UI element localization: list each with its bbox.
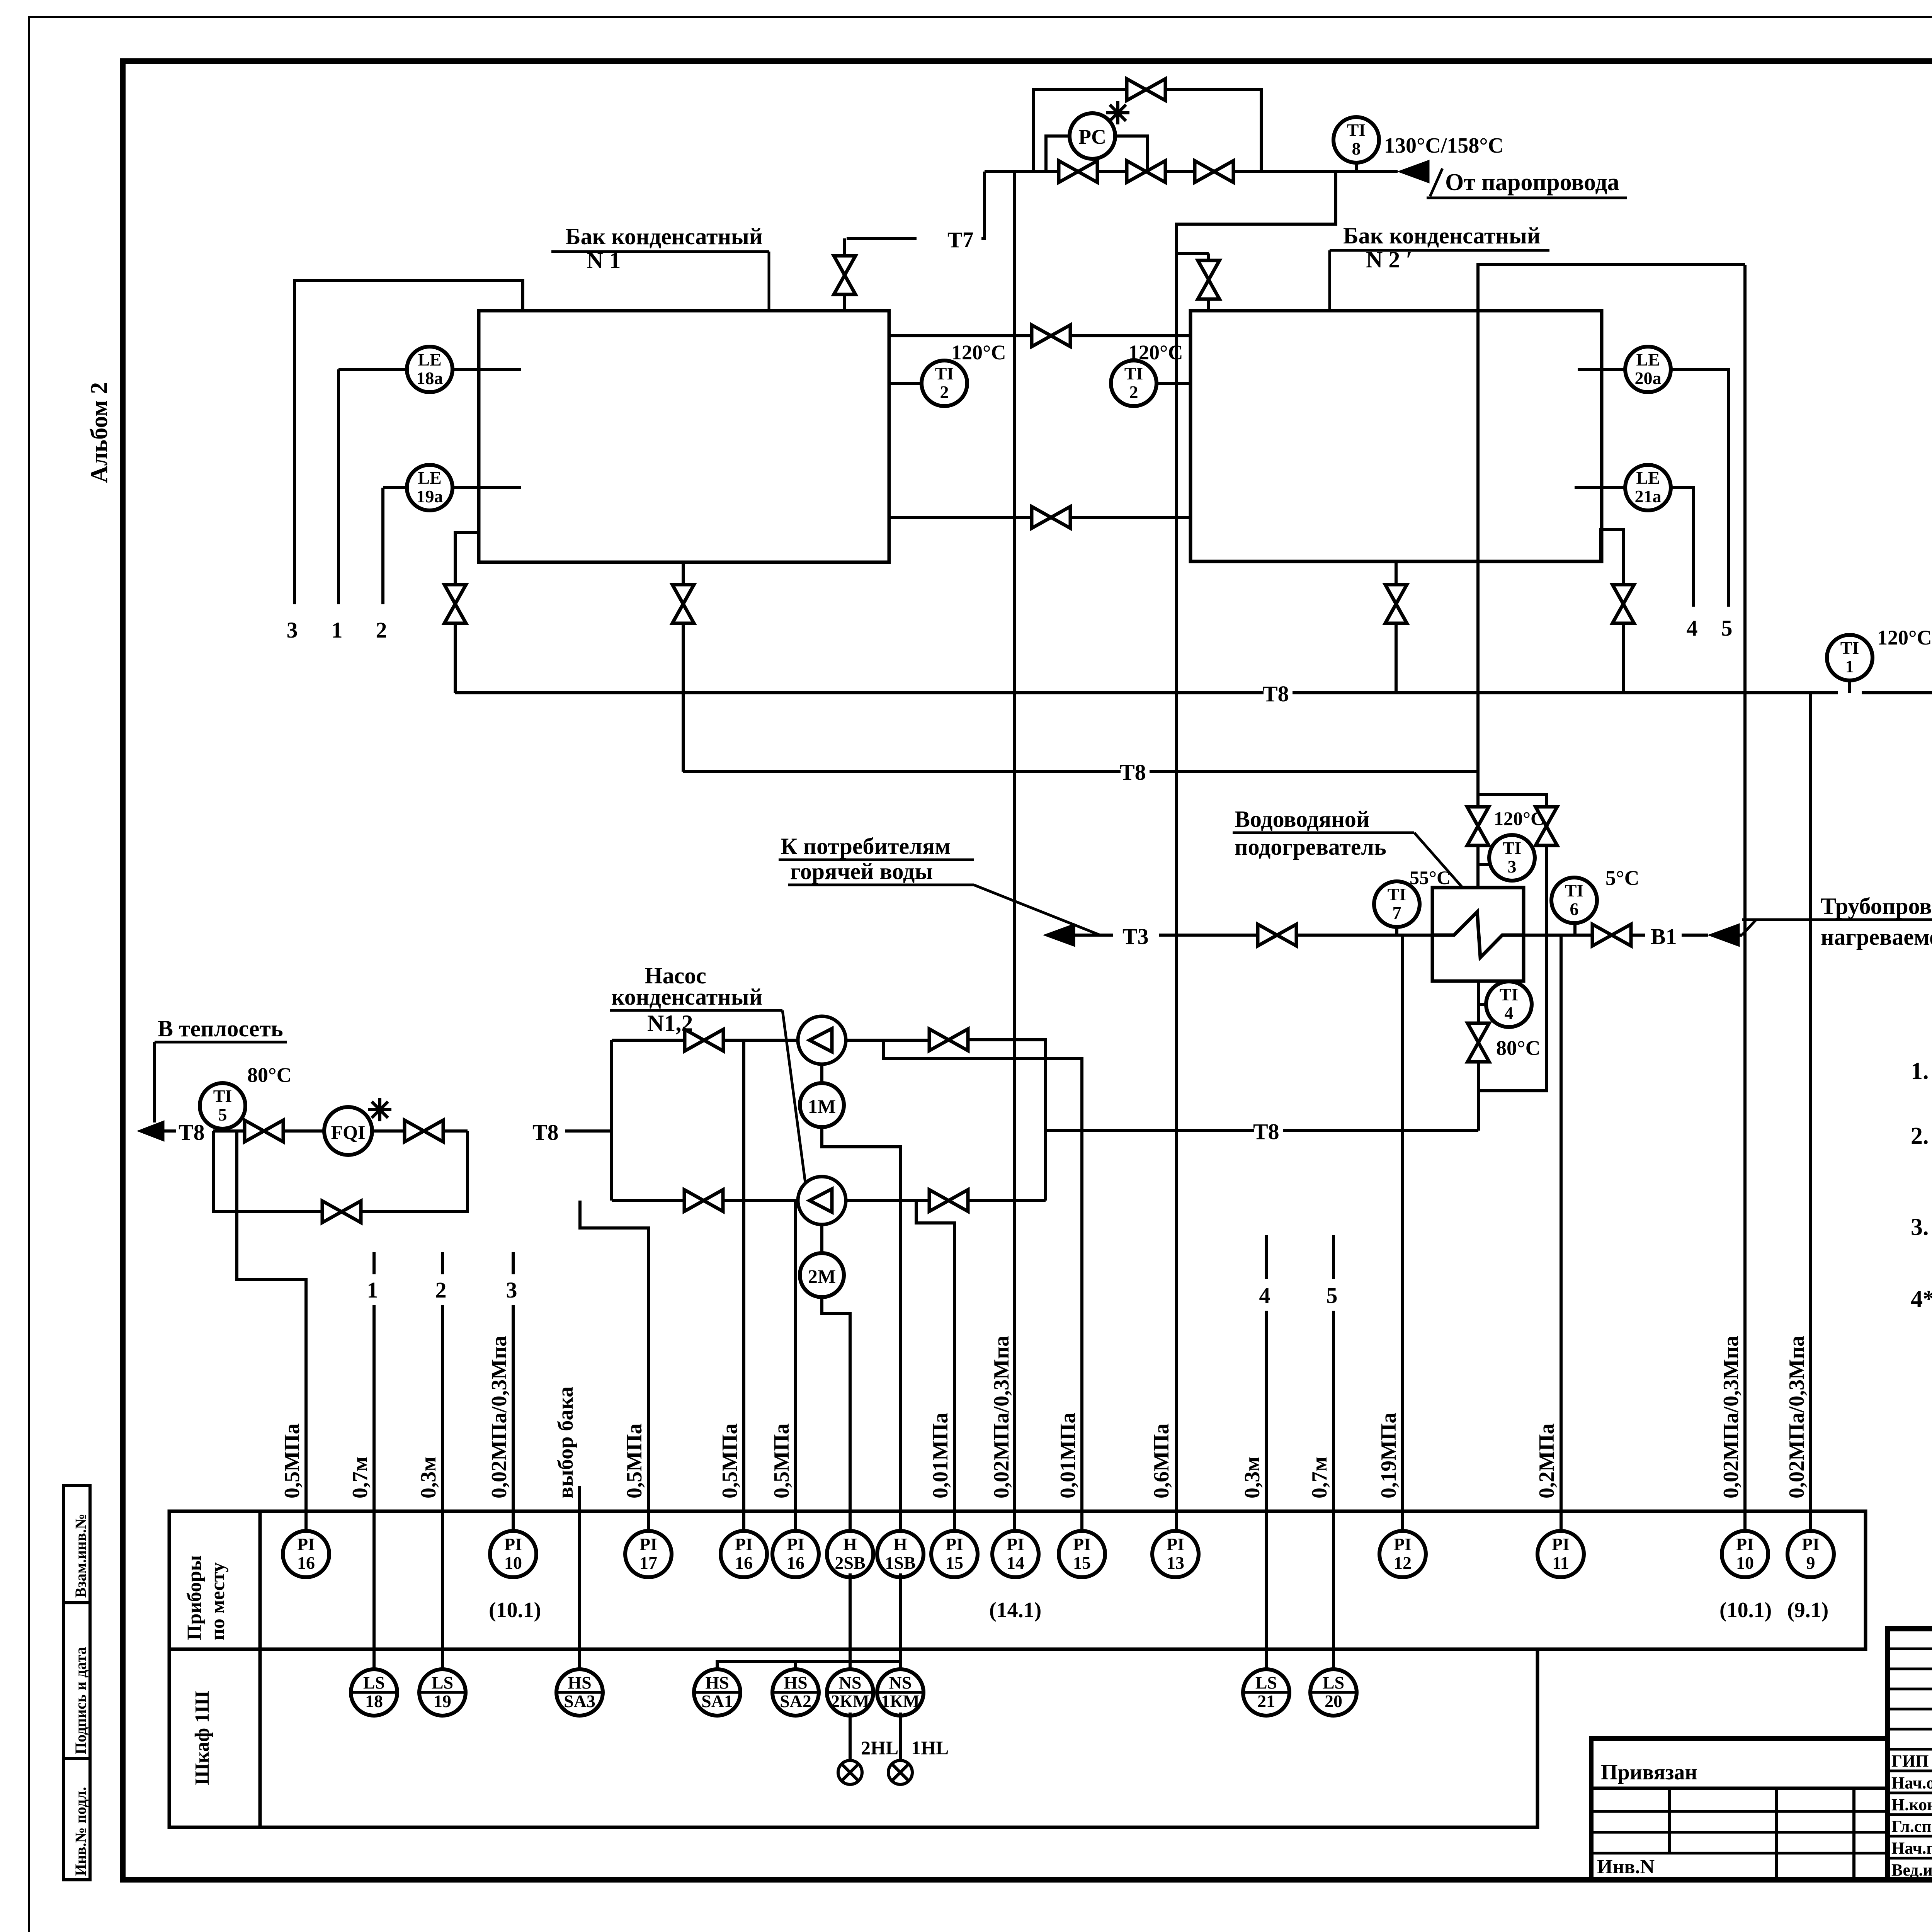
wire xyxy=(372,1129,404,1133)
wire xyxy=(1293,691,1838,694)
svg-text:HS: HS xyxy=(705,1673,729,1692)
wire xyxy=(820,1064,823,1083)
wire xyxy=(1888,1688,1932,1690)
svg-text:LS: LS xyxy=(1323,1673,1344,1692)
wire xyxy=(1742,920,1756,935)
valve pump2 discharge xyxy=(929,1190,968,1211)
svg-text:SA1: SA1 xyxy=(701,1691,733,1711)
valve pump1 discharge xyxy=(929,1029,968,1051)
wire xyxy=(1888,1813,1932,1816)
wire xyxy=(1332,1311,1335,1668)
svg-text:5°C: 5°C xyxy=(1605,866,1639,889)
valve steam bypass xyxy=(1127,79,1165,100)
gauge PI16 xyxy=(721,1531,767,1577)
svg-text:T8: T8 xyxy=(1263,681,1289,706)
wire TI8 stem xyxy=(1355,160,1358,172)
title block xyxy=(1888,1629,1932,1880)
tank Бак конденсатный N1 xyxy=(479,311,889,562)
svg-text:T8: T8 xyxy=(1120,760,1146,785)
wire xyxy=(884,1040,1082,1529)
valve tank2 drain right xyxy=(1612,585,1634,623)
wire xyxy=(969,1199,1046,1202)
wire xyxy=(1297,934,1432,937)
svg-text:TI: TI xyxy=(1388,884,1406,904)
svg-text:LS: LS xyxy=(363,1673,385,1692)
svg-text:PI: PI xyxy=(1736,1534,1754,1554)
wire xyxy=(794,1662,797,1668)
svg-text:От паропровода: От паропровода xyxy=(1445,169,1619,196)
gauge PI11 xyxy=(1537,1531,1584,1577)
svg-text:2SB: 2SB xyxy=(835,1553,865,1573)
svg-text:4: 4 xyxy=(1687,616,1698,641)
wire xyxy=(512,1252,515,1274)
wire TI4 tick xyxy=(1478,1003,1487,1006)
wire LE19a probe xyxy=(452,486,521,489)
valve pump2 suction xyxy=(684,1190,723,1211)
valve heater bypass xyxy=(1536,807,1557,845)
wire impulse to PI9 xyxy=(1809,693,1812,1529)
svg-text:TI: TI xyxy=(213,1086,232,1106)
wire impulse to PI10 xyxy=(1743,265,1747,1529)
wire xyxy=(1477,993,1480,1022)
svg-text:Подпись и дата: Подпись и дата xyxy=(72,1647,89,1754)
svg-text:PI: PI xyxy=(1007,1534,1024,1554)
svg-text:Приборы: Приборы xyxy=(184,1555,206,1640)
wire xyxy=(213,1129,244,1133)
svg-text:10: 10 xyxy=(1736,1553,1754,1573)
svg-text:SA2: SA2 xyxy=(780,1691,811,1711)
svg-text:16: 16 xyxy=(297,1553,315,1573)
svg-text:LE: LE xyxy=(1636,468,1660,488)
wire xyxy=(969,1040,1046,1201)
arrow К потребителям горячей воды xyxy=(1043,923,1075,947)
wire xyxy=(1265,1311,1268,1668)
wire xyxy=(1682,934,1708,937)
wire tank link top xyxy=(889,334,1031,337)
flow meter FQI xyxy=(324,1107,372,1155)
wire steam line to arrow xyxy=(1234,170,1398,173)
svg-text:TI: TI xyxy=(1124,364,1143,383)
svg-text:LE: LE xyxy=(418,350,441,369)
switch LS20 xyxy=(1310,1669,1357,1716)
svg-text:2HL: 2HL xyxy=(861,1737,898,1759)
svg-text:8: 8 xyxy=(1352,139,1361,158)
svg-text:T8: T8 xyxy=(532,1120,559,1145)
svg-text:1HL: 1HL xyxy=(911,1737,949,1759)
wire tank link bottom xyxy=(889,516,1031,519)
pushbutton H2SB xyxy=(827,1531,873,1577)
wire T8 main collector xyxy=(455,691,1264,694)
thermometer TI7 xyxy=(1374,881,1420,927)
table column divider xyxy=(259,1511,262,1827)
level element LE20a xyxy=(1625,347,1671,392)
svg-text:H: H xyxy=(843,1534,857,1554)
wire TI1 stem xyxy=(1848,679,1851,693)
svg-text:B1: B1 xyxy=(1651,924,1677,949)
wire xyxy=(214,1131,321,1212)
gauge PI9 xyxy=(1787,1531,1834,1577)
wire 1 from LE18a xyxy=(338,368,407,371)
svg-text:Нач.гр.: Нач.гр. xyxy=(1891,1839,1932,1858)
svg-text:Бак конденсатный: Бак конденсатный xyxy=(565,224,762,249)
gauge PI13 xyxy=(1152,1531,1199,1577)
svg-text:Нач.отд.: Нач.отд. xyxy=(1891,1773,1932,1792)
thermometer TI4 xyxy=(1486,981,1532,1027)
wire xyxy=(846,1039,929,1042)
wire xyxy=(1862,691,1932,694)
wire xyxy=(455,532,479,584)
wire B1 side xyxy=(1524,934,1592,937)
wire xyxy=(682,624,685,772)
switch LS21 xyxy=(1243,1669,1289,1716)
margin table xyxy=(64,1486,90,1880)
wire 2 from LE19a xyxy=(383,486,407,489)
svg-text:Привязан: Привязан xyxy=(1601,1760,1697,1784)
svg-text:PI: PI xyxy=(504,1534,522,1554)
wire impulse to PI16 xyxy=(794,1201,797,1529)
valve FQI bypass xyxy=(322,1201,361,1223)
svg-text:1SB: 1SB xyxy=(885,1553,915,1573)
valve tank2 top xyxy=(1198,260,1219,299)
level element LE18a xyxy=(407,347,452,392)
svg-text:120°C: 120°C xyxy=(951,341,1006,364)
svg-text:подогреватель: подогреватель xyxy=(1235,834,1386,860)
svg-text:6: 6 xyxy=(1570,899,1579,919)
svg-text:В теплосеть: В теплосеть xyxy=(158,1016,283,1041)
switch HS SA3 xyxy=(556,1669,603,1716)
svg-text:Трубопровод: Трубопровод xyxy=(1821,893,1932,919)
thermometer TI1 xyxy=(1827,635,1872,680)
svg-text:130°C/158°C: 130°C/158°C xyxy=(1384,134,1503,158)
svg-text:2М: 2М xyxy=(808,1265,836,1287)
svg-text:T8: T8 xyxy=(179,1120,205,1145)
wire xyxy=(1742,918,1932,921)
svg-text:21: 21 xyxy=(1257,1691,1275,1711)
wire to LS19 xyxy=(441,1529,444,1668)
svg-text:15: 15 xyxy=(946,1553,963,1573)
svg-text:3. В скобках указаны позиции п: 3. В скобках указаны позиции приборов дл… xyxy=(1911,1214,1932,1240)
wire pump1 suction xyxy=(612,1039,684,1042)
wire xyxy=(981,172,985,238)
wire xyxy=(1591,1810,1888,1813)
wire to LS18 xyxy=(372,1529,376,1668)
underline xyxy=(551,250,769,253)
wire xyxy=(1600,529,1623,584)
svg-text:0,6МПа: 0,6МПа xyxy=(1150,1423,1173,1498)
wire H2SB to NS2KM xyxy=(849,1573,852,1668)
wire xyxy=(1591,1852,1888,1855)
svg-text:0,02МПа/0,3Мпа: 0,02МПа/0,3Мпа xyxy=(990,1336,1014,1498)
wire xyxy=(372,1252,376,1274)
svg-text:20: 20 xyxy=(1325,1691,1342,1711)
svg-text:TI: TI xyxy=(935,364,954,383)
svg-text:12: 12 xyxy=(1394,1553,1412,1573)
svg-text:N 2 ′: N 2 ′ xyxy=(1366,247,1412,272)
arrow Трубопровод нагреваемой воды xyxy=(1708,923,1740,947)
wire xyxy=(1265,1235,1268,1279)
svg-text:(14.1): (14.1) xyxy=(989,1598,1041,1622)
wire xyxy=(1476,772,1480,806)
wire xyxy=(1233,832,1414,834)
wire 2M to H2SB xyxy=(822,1297,850,1529)
wire xyxy=(1071,334,1190,337)
svg-text:3: 3 xyxy=(1508,857,1517,876)
svg-text:0,5МПа: 0,5МПа xyxy=(770,1423,794,1498)
svg-text:2КМ: 2КМ xyxy=(831,1691,869,1711)
svg-text:13: 13 xyxy=(1167,1553,1184,1573)
switch LS18 xyxy=(351,1669,397,1716)
gauge PI12 xyxy=(1379,1531,1426,1577)
asterisk PC xyxy=(1106,101,1129,124)
wire xyxy=(64,1601,90,1604)
wire xyxy=(1888,1648,1932,1650)
svg-text:120°C: 120°C xyxy=(1877,626,1932,649)
wire xyxy=(899,1713,902,1760)
wire T3 xyxy=(1075,934,1113,937)
svg-text:H: H xyxy=(893,1534,907,1554)
pump 2 xyxy=(798,1177,846,1225)
svg-text:18: 18 xyxy=(365,1691,383,1711)
svg-text:2. Значения параметров 0,02МПа: 2. Значения параметров 0,02МПа/0,3МПа пр… xyxy=(1911,1123,1932,1149)
wire impulse to PI11 xyxy=(1560,935,1563,1529)
svg-text:T7: T7 xyxy=(947,227,974,252)
wire xyxy=(155,1041,287,1044)
wire xyxy=(1046,136,1070,172)
valve steam 1 xyxy=(1059,161,1097,182)
wire 1M to H1SB xyxy=(822,1127,900,1529)
wire xyxy=(1395,561,1398,584)
wire xyxy=(1166,170,1194,173)
svg-text:2: 2 xyxy=(435,1277,447,1303)
svg-text:19a: 19a xyxy=(417,486,443,506)
divider xyxy=(1852,1788,1855,1880)
valve FQI upstream xyxy=(245,1120,283,1142)
svg-text:HS: HS xyxy=(568,1673,591,1692)
wire impulse to PI16 xyxy=(742,1040,745,1529)
svg-text:выбор бака: выбор бака xyxy=(554,1386,578,1498)
wire xyxy=(1430,168,1442,196)
wire xyxy=(1150,770,1478,773)
svg-text:FQI: FQI xyxy=(331,1121,366,1143)
pump 1 xyxy=(798,1016,846,1064)
svg-text:55°C: 55°C xyxy=(1410,867,1451,888)
svg-text:21a: 21a xyxy=(1635,486,1662,506)
wire LE21a probe xyxy=(1575,486,1626,489)
svg-text:0,7м: 0,7м xyxy=(1308,1457,1332,1498)
svg-text:0,2МПа: 0,2МПа xyxy=(1535,1423,1559,1498)
gauge PI14 xyxy=(992,1531,1039,1577)
thermometer TI5 xyxy=(200,1083,245,1129)
svg-text:3: 3 xyxy=(506,1277,517,1303)
svg-text:5: 5 xyxy=(218,1105,227,1124)
wire xyxy=(64,1757,90,1760)
wire xyxy=(372,1305,376,1529)
wire xyxy=(337,369,340,604)
wire xyxy=(580,1201,648,1529)
wire xyxy=(1740,934,1742,937)
wire xyxy=(153,1042,156,1122)
svg-text:нагреваемой воды: нагреваемой воды xyxy=(1821,924,1932,950)
wire xyxy=(1098,170,1126,173)
svg-text:80°C: 80°C xyxy=(247,1063,292,1087)
svg-text:17: 17 xyxy=(639,1553,657,1573)
switch LS19 xyxy=(419,1669,466,1716)
svg-text:TI: TI xyxy=(1840,638,1859,658)
wire xyxy=(1591,1831,1888,1834)
thermometer TI3 xyxy=(1489,835,1535,881)
thermometer TI6 xyxy=(1551,878,1597,923)
wire xyxy=(1591,1787,1888,1790)
wire xyxy=(1115,136,1148,172)
svg-text:0,3м: 0,3м xyxy=(1240,1457,1264,1498)
svg-text:120°C: 120°C xyxy=(1128,341,1183,364)
gauge PI15 xyxy=(1059,1531,1105,1577)
wire TI5 stem xyxy=(221,1128,224,1131)
svg-text:PI: PI xyxy=(1552,1534,1570,1554)
motor 2M xyxy=(800,1253,844,1297)
svg-text:по месту: по месту xyxy=(207,1562,229,1640)
svg-text:1: 1 xyxy=(1845,656,1854,676)
wire xyxy=(1622,624,1625,693)
wire steam feed to tank2 xyxy=(1177,172,1336,253)
wire T7 left segment xyxy=(847,237,917,240)
wire TI2b stem xyxy=(1156,382,1190,385)
wire xyxy=(724,1199,798,1202)
svg-text:Вед.инж.: Вед.инж. xyxy=(1891,1861,1932,1879)
wire xyxy=(1332,1235,1335,1279)
svg-text:11: 11 xyxy=(1552,1553,1569,1573)
wire TI2a stem xyxy=(889,382,922,385)
svg-text:15: 15 xyxy=(1073,1553,1091,1573)
wire impulse to PI14 xyxy=(1013,172,1016,1529)
svg-text:1: 1 xyxy=(332,617,343,643)
underline От паропровода xyxy=(1427,197,1627,199)
svg-text:0,02МПа/0,3Мпа: 0,02МПа/0,3Мпа xyxy=(487,1336,511,1498)
wire xyxy=(1888,1857,1932,1860)
svg-text:0,5МПа: 0,5МПа xyxy=(718,1423,742,1498)
tank Бак конденсатный N2 xyxy=(1190,311,1602,561)
svg-text:Альбом 2: Альбом 2 xyxy=(86,382,112,483)
svg-text:0,19МПа: 0,19МПа xyxy=(1377,1413,1401,1498)
wire xyxy=(916,1201,954,1529)
svg-text:PI: PI xyxy=(1802,1534,1820,1554)
wire xyxy=(1478,794,1546,806)
svg-text:0,5МПа: 0,5МПа xyxy=(280,1423,304,1498)
svg-text:PI: PI xyxy=(1394,1534,1412,1554)
wire xyxy=(1888,1835,1932,1838)
thermometer TI8 xyxy=(1333,117,1379,163)
wire xyxy=(1015,170,1058,173)
svg-text:Н.контр.: Н.контр. xyxy=(1891,1795,1932,1814)
wire TI7 stem xyxy=(1395,926,1398,935)
asterisk FQI xyxy=(368,1098,391,1121)
wire xyxy=(1159,934,1257,937)
svg-text:TI: TI xyxy=(1500,985,1519,1004)
wire xyxy=(724,1039,798,1042)
svg-text:T8: T8 xyxy=(1253,1119,1279,1144)
table row divider xyxy=(169,1648,1537,1651)
svg-text:19: 19 xyxy=(434,1691,451,1711)
svg-text:0,5МПа: 0,5МПа xyxy=(622,1423,646,1498)
wire xyxy=(284,1129,324,1133)
svg-text:0,02МПа/0,3Мпа: 0,02МПа/0,3Мпа xyxy=(1785,1336,1809,1498)
wire xyxy=(1888,1708,1932,1711)
valve FQI downstream xyxy=(405,1120,443,1142)
valve B1 xyxy=(1592,924,1631,946)
svg-text:PI: PI xyxy=(297,1534,315,1554)
valve heater inlet 120C xyxy=(1467,807,1489,845)
svg-text:80°C: 80°C xyxy=(1496,1036,1541,1060)
gauge PI17 xyxy=(625,1531,672,1577)
wire leader xyxy=(1414,833,1463,888)
valve tank link top xyxy=(1032,325,1070,347)
wire xyxy=(1207,253,1210,260)
arrow В теплосеть xyxy=(137,1121,164,1141)
svg-text:К потребителям: К потребителям xyxy=(781,833,951,859)
wire xyxy=(1888,1748,1932,1751)
svg-text:16: 16 xyxy=(735,1553,753,1573)
gauge PI10 xyxy=(490,1531,536,1577)
wire xyxy=(1207,300,1210,311)
svg-text:PI: PI xyxy=(1167,1534,1184,1554)
level element LE21a xyxy=(1625,465,1671,510)
svg-text:0,7м: 0,7м xyxy=(348,1457,372,1498)
wire 5 from LE20a xyxy=(1670,369,1728,607)
svg-text:Бак конденсатный: Бак конденсатный xyxy=(1343,223,1540,248)
svg-text:14: 14 xyxy=(1007,1553,1024,1573)
wire xyxy=(1888,1668,1932,1670)
svg-text:Инв.N: Инв.N xyxy=(1597,1856,1655,1878)
wire xyxy=(1395,624,1398,693)
wire xyxy=(1175,253,1178,1529)
svg-text:1М: 1М xyxy=(808,1095,836,1117)
wire T8 to heat network xyxy=(164,1129,176,1133)
wire to pump suction header xyxy=(565,1129,612,1133)
svg-text:PI: PI xyxy=(1073,1534,1091,1554)
switch HS SA2 xyxy=(772,1669,819,1716)
divider xyxy=(1775,1788,1778,1880)
svg-text:SA3: SA3 xyxy=(564,1691,595,1711)
wire xyxy=(1888,1792,1932,1794)
wire xyxy=(1632,934,1645,937)
wire xyxy=(444,1129,468,1133)
pushbutton H1SB xyxy=(877,1531,923,1577)
svg-text:Взам.инв.№: Взам.инв.№ xyxy=(72,1514,89,1598)
switch HS SA1 xyxy=(694,1669,740,1716)
attachment block Привязан xyxy=(1591,1738,1888,1880)
svg-text:LE: LE xyxy=(1636,350,1660,369)
svg-text:4: 4 xyxy=(1259,1283,1270,1308)
valve pump1 suction xyxy=(685,1029,723,1051)
svg-text:1: 1 xyxy=(367,1277,378,1303)
wire xyxy=(294,281,523,604)
wire leader xyxy=(974,885,1100,935)
svg-text:5: 5 xyxy=(1721,616,1733,641)
svg-text:4*. Прибор заказан в технологи: 4*. Прибор заказан в технологической час… xyxy=(1911,1286,1932,1312)
arrow from steam pipe xyxy=(1398,160,1429,183)
wire xyxy=(610,1040,613,1201)
svg-text:0,01МПа: 0,01МПа xyxy=(929,1413,952,1498)
svg-text:TI: TI xyxy=(1503,838,1522,858)
valve T3 xyxy=(1258,924,1296,946)
wire xyxy=(1888,1728,1932,1731)
wire xyxy=(820,1225,823,1253)
svg-text:4: 4 xyxy=(1505,1003,1514,1023)
svg-text:1. Схема выполнена на основани: 1. Схема выполнена на основании техничес… xyxy=(1911,1058,1932,1084)
wire LE18a probe xyxy=(452,368,521,371)
svg-text:горячей воды: горячей воды xyxy=(790,859,933,884)
wire xyxy=(441,1252,444,1274)
